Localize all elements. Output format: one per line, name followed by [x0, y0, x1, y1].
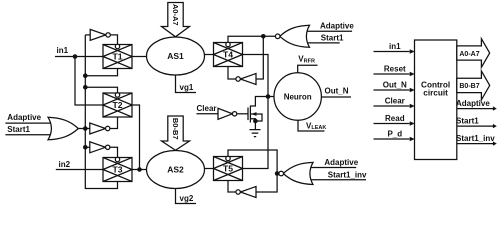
- svg-text:in1: in1: [389, 42, 401, 51]
- svg-text:Adaptive: Adaptive: [324, 158, 358, 167]
- svg-text:B0-B7: B0-B7: [171, 118, 180, 140]
- svg-text:Adaptive: Adaptive: [456, 99, 490, 108]
- svg-text:AS1: AS1: [167, 51, 184, 61]
- svg-text:Start1: Start1: [456, 116, 479, 125]
- svg-text:Start1: Start1: [7, 125, 30, 134]
- svg-text:Read: Read: [385, 114, 405, 123]
- svg-text:in1: in1: [57, 46, 69, 55]
- svg-text:Out_N: Out_N: [325, 87, 349, 96]
- svg-text:in2: in2: [59, 160, 71, 169]
- svg-text:Clear: Clear: [385, 96, 405, 105]
- svg-text:P_d: P_d: [387, 129, 402, 138]
- svg-text:B0-B7: B0-B7: [459, 83, 479, 90]
- svg-text:T3: T3: [112, 165, 122, 175]
- svg-text:T2: T2: [112, 100, 122, 110]
- svg-text:A0-A7: A0-A7: [171, 4, 180, 26]
- svg-text:AS2: AS2: [167, 165, 184, 175]
- svg-text:Out_N: Out_N: [383, 80, 407, 89]
- svg-text:vg2: vg2: [180, 194, 194, 203]
- svg-text:A0-A7: A0-A7: [459, 51, 479, 58]
- svg-text:Neuron: Neuron: [284, 92, 312, 101]
- svg-text:Start1_inv: Start1_inv: [456, 134, 495, 143]
- svg-text:T4: T4: [223, 50, 233, 60]
- svg-text:Adaptive: Adaptive: [7, 113, 41, 122]
- svg-text:Start1: Start1: [321, 33, 344, 42]
- svg-text:Adaptive: Adaptive: [320, 22, 354, 31]
- svg-text:T5: T5: [223, 164, 233, 174]
- svg-text:Reset: Reset: [384, 64, 406, 73]
- svg-text:circuit: circuit: [423, 88, 448, 97]
- svg-text:T1: T1: [112, 52, 122, 62]
- svg-text:Start1_inv: Start1_inv: [328, 170, 367, 179]
- svg-text:Clear: Clear: [197, 104, 217, 113]
- svg-text:vg1: vg1: [180, 83, 194, 92]
